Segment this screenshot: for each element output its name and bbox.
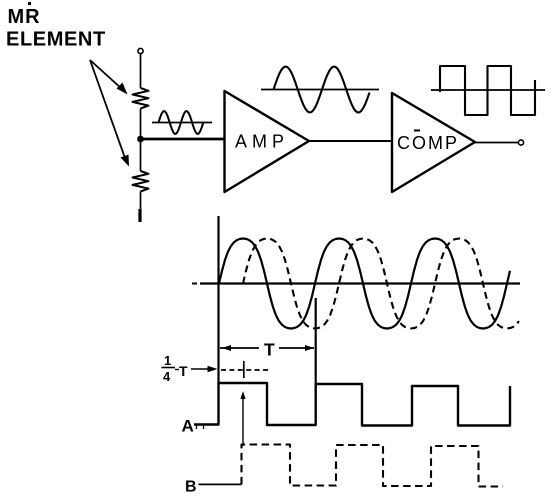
wire COMP output to terminal [475, 142, 518, 144]
scan ticks on A lead wire [196, 425, 198, 429]
waveform A (solid square wave) [194, 383, 510, 426]
T dimension line [220, 345, 314, 351]
quarter-period dashed extension [221, 369, 271, 371]
waveform B (dashed square wave) [242, 445, 504, 487]
period boundary line (right of T) [315, 298, 317, 384]
leader line to waveform B rising edge [242, 394, 244, 446]
sine waveform icon between AMP and COMP [274, 67, 370, 113]
resistor R1 (upper MR element) [133, 88, 149, 108]
svg-text:T: T [179, 363, 188, 379]
scan speck above COMP O [414, 130, 420, 132]
input sine waveform icon baseline [152, 122, 212, 124]
svg-text:4: 4 [163, 369, 171, 384]
square waveform icon [440, 66, 535, 115]
terminal (top) [138, 48, 143, 53]
dashed sine wave (channel B signal) [243, 239, 519, 329]
input sine waveform icon [159, 111, 204, 134]
op-amp U1 AMP triangle [225, 91, 310, 192]
axis left tick [192, 283, 197, 285]
svg-text:MR: MR [8, 6, 41, 28]
square waveform icon baseline [431, 89, 545, 91]
terminal (output) [518, 140, 523, 145]
leader arrow to R2 [90, 60, 129, 167]
timing diagram vertical axis [217, 216, 219, 384]
wire AMP output to COMP input [309, 140, 392, 142]
wire below R2 [140, 192, 142, 211]
wire node to AMP input [143, 138, 224, 141]
quarter-period tick [243, 361, 245, 378]
wire R1 to node [140, 109, 142, 138]
svg-text:AMP: AMP [235, 131, 289, 151]
resistor R2 (lower MR element) [133, 171, 149, 191]
sine waveform icon between AMP and COMP baseline [261, 89, 379, 91]
timing diagram horizontal axis [200, 282, 520, 284]
solid sine wave (channel A signal) [219, 239, 510, 329]
quarter-period arrow [191, 366, 218, 372]
svg-text:ELEMENT: ELEMENT [6, 29, 106, 51]
label 1/4 T fraction [162, 353, 189, 384]
leader arrow to R1 [90, 60, 128, 95]
svg-text:B: B [185, 479, 197, 496]
scan speck above MR [28, 2, 31, 5]
waveform B lead wire [199, 483, 242, 485]
node (junction dot) [137, 136, 144, 143]
wire terminal to R1 [140, 54, 142, 88]
svg-text:T: T [264, 340, 275, 360]
wire node to R2 [140, 141, 142, 171]
label MR ELEMENT [6, 6, 106, 50]
svg-text:COMP: COMP [397, 133, 459, 153]
svg-text:A: A [182, 417, 194, 436]
comparator U2 COMP triangle [392, 93, 475, 192]
svg-text:1: 1 [164, 353, 171, 368]
